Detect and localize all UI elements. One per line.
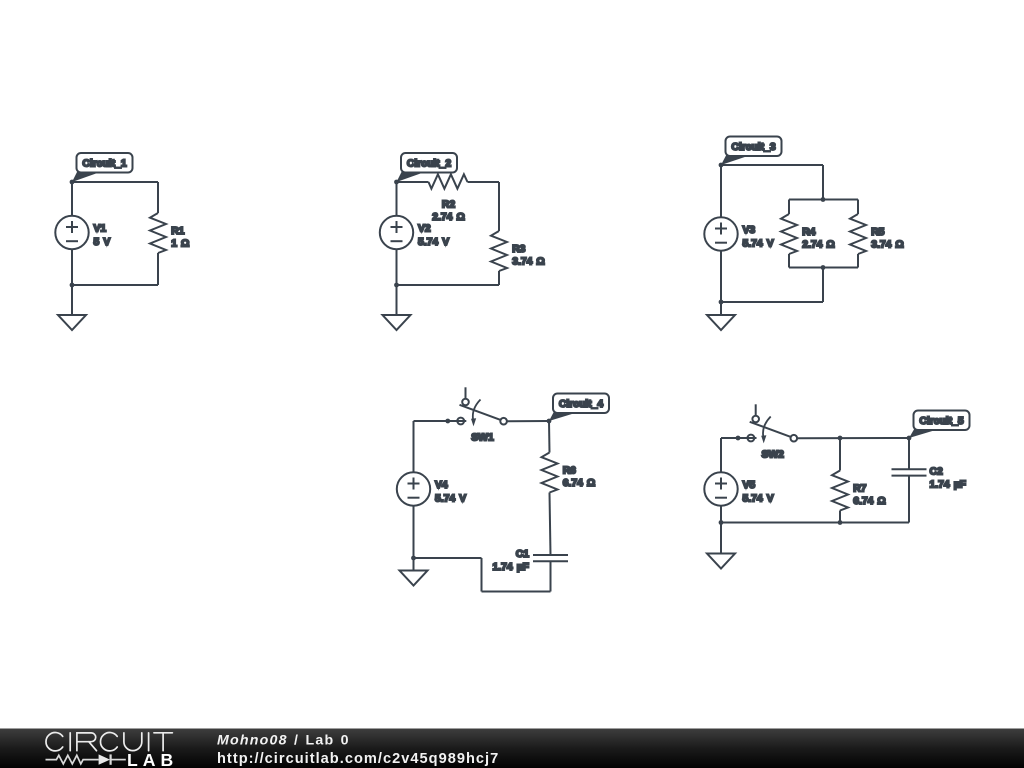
resistor R6 [542,453,558,493]
svg-text:R5: R5 [871,227,884,238]
svg-text:V3: V3 [743,225,756,236]
svg-text:http://circuitlab.com/c2v45q98: http://circuitlab.com/c2v45q989hcj7 [217,751,499,767]
svg-text:1.74 µF: 1.74 µF [493,562,529,573]
label R3 value 3.74 Ω [512,244,545,268]
wire V5 to SW2 [721,437,738,439]
wire R4 top stub [788,200,790,215]
svg-text:3.74 Ω: 3.74 Ω [512,257,545,268]
net label Circuit_1 [72,153,133,182]
wire C2 top lead [908,438,910,469]
resistor R3 [491,231,507,271]
label R2 value 2.74 Ω [432,199,465,223]
svg-text:R7: R7 [853,484,866,495]
wire C2 bottom lead [908,476,910,523]
wire down to parallel bus [822,165,824,200]
svg-text:5 V: 5 V [94,237,111,248]
node junction dot bottom bus [821,265,826,270]
svg-text:3.74 Ω: 3.74 Ω [871,240,904,251]
label C1 value 1.74 µF [493,549,530,573]
label C2 value 1.74 µF [930,467,966,491]
wire V2 bottom lead [396,249,398,285]
node junction dot R7 top [838,436,843,441]
svg-text:R2: R2 [442,199,455,210]
svg-text:V4: V4 [435,480,448,491]
wire R5 top stub [857,200,859,215]
node junction dot R7 bottom [838,520,843,525]
wire to ground stub [71,285,73,315]
wire bottom net [397,284,500,286]
label V3 value 5.74 V [743,225,774,250]
label R7 value 6.74 Ω [853,484,886,508]
svg-text:Circuit_2: Circuit_2 [407,159,452,170]
wire R6 to C1 [550,493,551,556]
wire V1 top lead [71,182,73,216]
label R4 value 2.74 Ω [802,227,835,251]
wire to ground stub [396,285,398,315]
wire V4 to SW1 [414,420,448,422]
net label Circuit_4 [549,394,609,422]
capacitor C1 [533,555,568,561]
wire R2 to corner [468,181,500,183]
wire to V4 bottom node [414,557,482,559]
svg-text:6.74 Ω: 6.74 Ω [563,478,596,489]
CircuitLab logo wordmark CIRCUIT [46,733,172,751]
svg-text:SW1: SW1 [471,433,494,444]
switch SW2 SPST toggle [738,404,797,443]
wire to ground stub [413,558,415,571]
svg-text:5.74 V: 5.74 V [743,494,774,505]
wire V5 bottom lead [720,506,722,523]
node dot for net label Circuit_1 [70,180,75,185]
voltage source V4 [397,472,430,505]
footer bar [0,729,1024,768]
ground GND of Circuit_3 [707,315,735,330]
wire top net [721,164,823,166]
wire V2 top lead [396,182,398,216]
wire V5 top lead [720,438,722,473]
CircuitLab logo schematic squiggle: resistor + diode [46,754,126,764]
svg-text:LAB: LAB [127,750,178,768]
svg-text:V2: V2 [418,224,431,235]
svg-text:C2: C2 [930,467,943,478]
wire bottom net [721,301,823,303]
label V4 value 5.74 V [435,480,466,505]
wire V3 bottom lead [720,251,722,302]
svg-text:Circuit_4: Circuit_4 [559,399,604,410]
wire right lower [157,253,159,285]
node dot for net label Circuit_2 [394,180,399,185]
resistor R7 [832,471,848,511]
label V2 value 5.74 V [418,224,449,249]
svg-text:5.74 V: 5.74 V [435,494,466,505]
node dot at SW1 input [445,419,450,424]
svg-text:SW2: SW2 [761,450,784,461]
wire to ground stub [720,302,722,315]
node dot at SW2 input [736,436,741,441]
svg-text:Circuit_5: Circuit_5 [919,416,964,427]
label R6 value 6.74 Ω [563,466,596,490]
net label Circuit_5 [909,411,970,439]
svg-text:Circuit_3: Circuit_3 [731,142,776,153]
wire R7 bottom lead [839,511,841,523]
switch SW1 SPST toggle [448,387,507,426]
wire SW2 to C2 node [797,437,909,439]
label V5 value 5.74 V [743,480,774,505]
label V1 value 5 V [94,224,111,249]
label R5 value 3.74 Ω [871,227,904,251]
svg-text:5.74 V: 5.74 V [418,237,449,248]
wire parallel top bus [789,199,858,201]
wire V3 top lead [720,165,722,218]
svg-text:5.74 V: 5.74 V [743,239,774,250]
voltage source V1 [55,216,88,249]
wire SW1 to node [507,420,549,422]
voltage source V3 [704,217,737,250]
node junction dot bottom-left [719,520,724,525]
net label Circuit_3 [721,137,782,166]
node junction dot bottom-left [394,283,399,288]
wire top-left to R2 [397,181,429,183]
ground GND of Circuit_1 [58,315,86,330]
wire R7 top lead [839,438,841,471]
svg-text:6.74 Ω: 6.74 Ω [853,496,886,507]
ground GND of Circuit_2 [383,315,411,330]
net label Circuit_2 [397,153,458,182]
ground GND of Circuit_5 [707,554,735,569]
svg-text:R3: R3 [512,244,525,255]
voltage source V2 [380,216,413,249]
node junction dot bottom-left [411,556,416,561]
node dot for net label Circuit_3 [719,163,724,168]
label R1 value 1 Ω [171,226,189,250]
ground GND of Circuit_4 [400,571,428,586]
resistor R1 [150,213,166,253]
wire node to R6 [548,421,551,453]
node junction dot bottom-left [719,300,724,305]
node junction dot top bus [821,197,826,202]
wire V1 bottom lead [71,249,73,285]
capacitor C2 [892,469,927,475]
svg-text:2.74 Ω: 2.74 Ω [432,212,465,223]
svg-text:Mohno08 / Lab 0: Mohno08 / Lab 0 [217,733,350,749]
node dot for net label Circuit_5 [907,436,912,441]
wire down to bottom net [822,268,824,303]
wire top net of Circuit_1 [72,181,158,183]
node dot for net label Circuit_4 [547,419,552,424]
wire bottom route vertical [481,558,483,592]
svg-text:1.74 µF: 1.74 µF [930,480,966,491]
wire bottom route horizontal [482,591,551,593]
wire R5 bottom stub [857,254,859,268]
svg-text:V5: V5 [743,480,756,491]
wire C1 bottom lead [550,561,552,591]
svg-text:C1: C1 [516,549,529,560]
svg-text:V1: V1 [94,224,107,235]
wire R4 bottom stub [788,254,790,268]
wire V4 bottom lead [413,506,415,559]
wire bottom net [721,522,909,524]
voltage source V5 [704,472,737,505]
wire right lower [498,271,500,285]
resistor R5 [850,214,866,254]
node junction dot bottom-left [70,283,75,288]
resistor R2 [429,174,468,188]
svg-text:1 Ω: 1 Ω [171,239,189,250]
wire parallel bottom bus [789,267,858,269]
wire V4 top lead [413,421,415,473]
wire right upper [498,182,500,231]
svg-text:2.74 Ω: 2.74 Ω [802,240,835,251]
wire bottom net [72,284,158,286]
svg-text:R4: R4 [802,227,815,238]
svg-text:R6: R6 [563,466,576,477]
wire right upper [157,182,159,213]
svg-text:Circuit_1: Circuit_1 [82,159,127,170]
wire to ground stub [720,523,722,554]
svg-text:R1: R1 [171,226,184,237]
resistor R4 [781,214,797,254]
